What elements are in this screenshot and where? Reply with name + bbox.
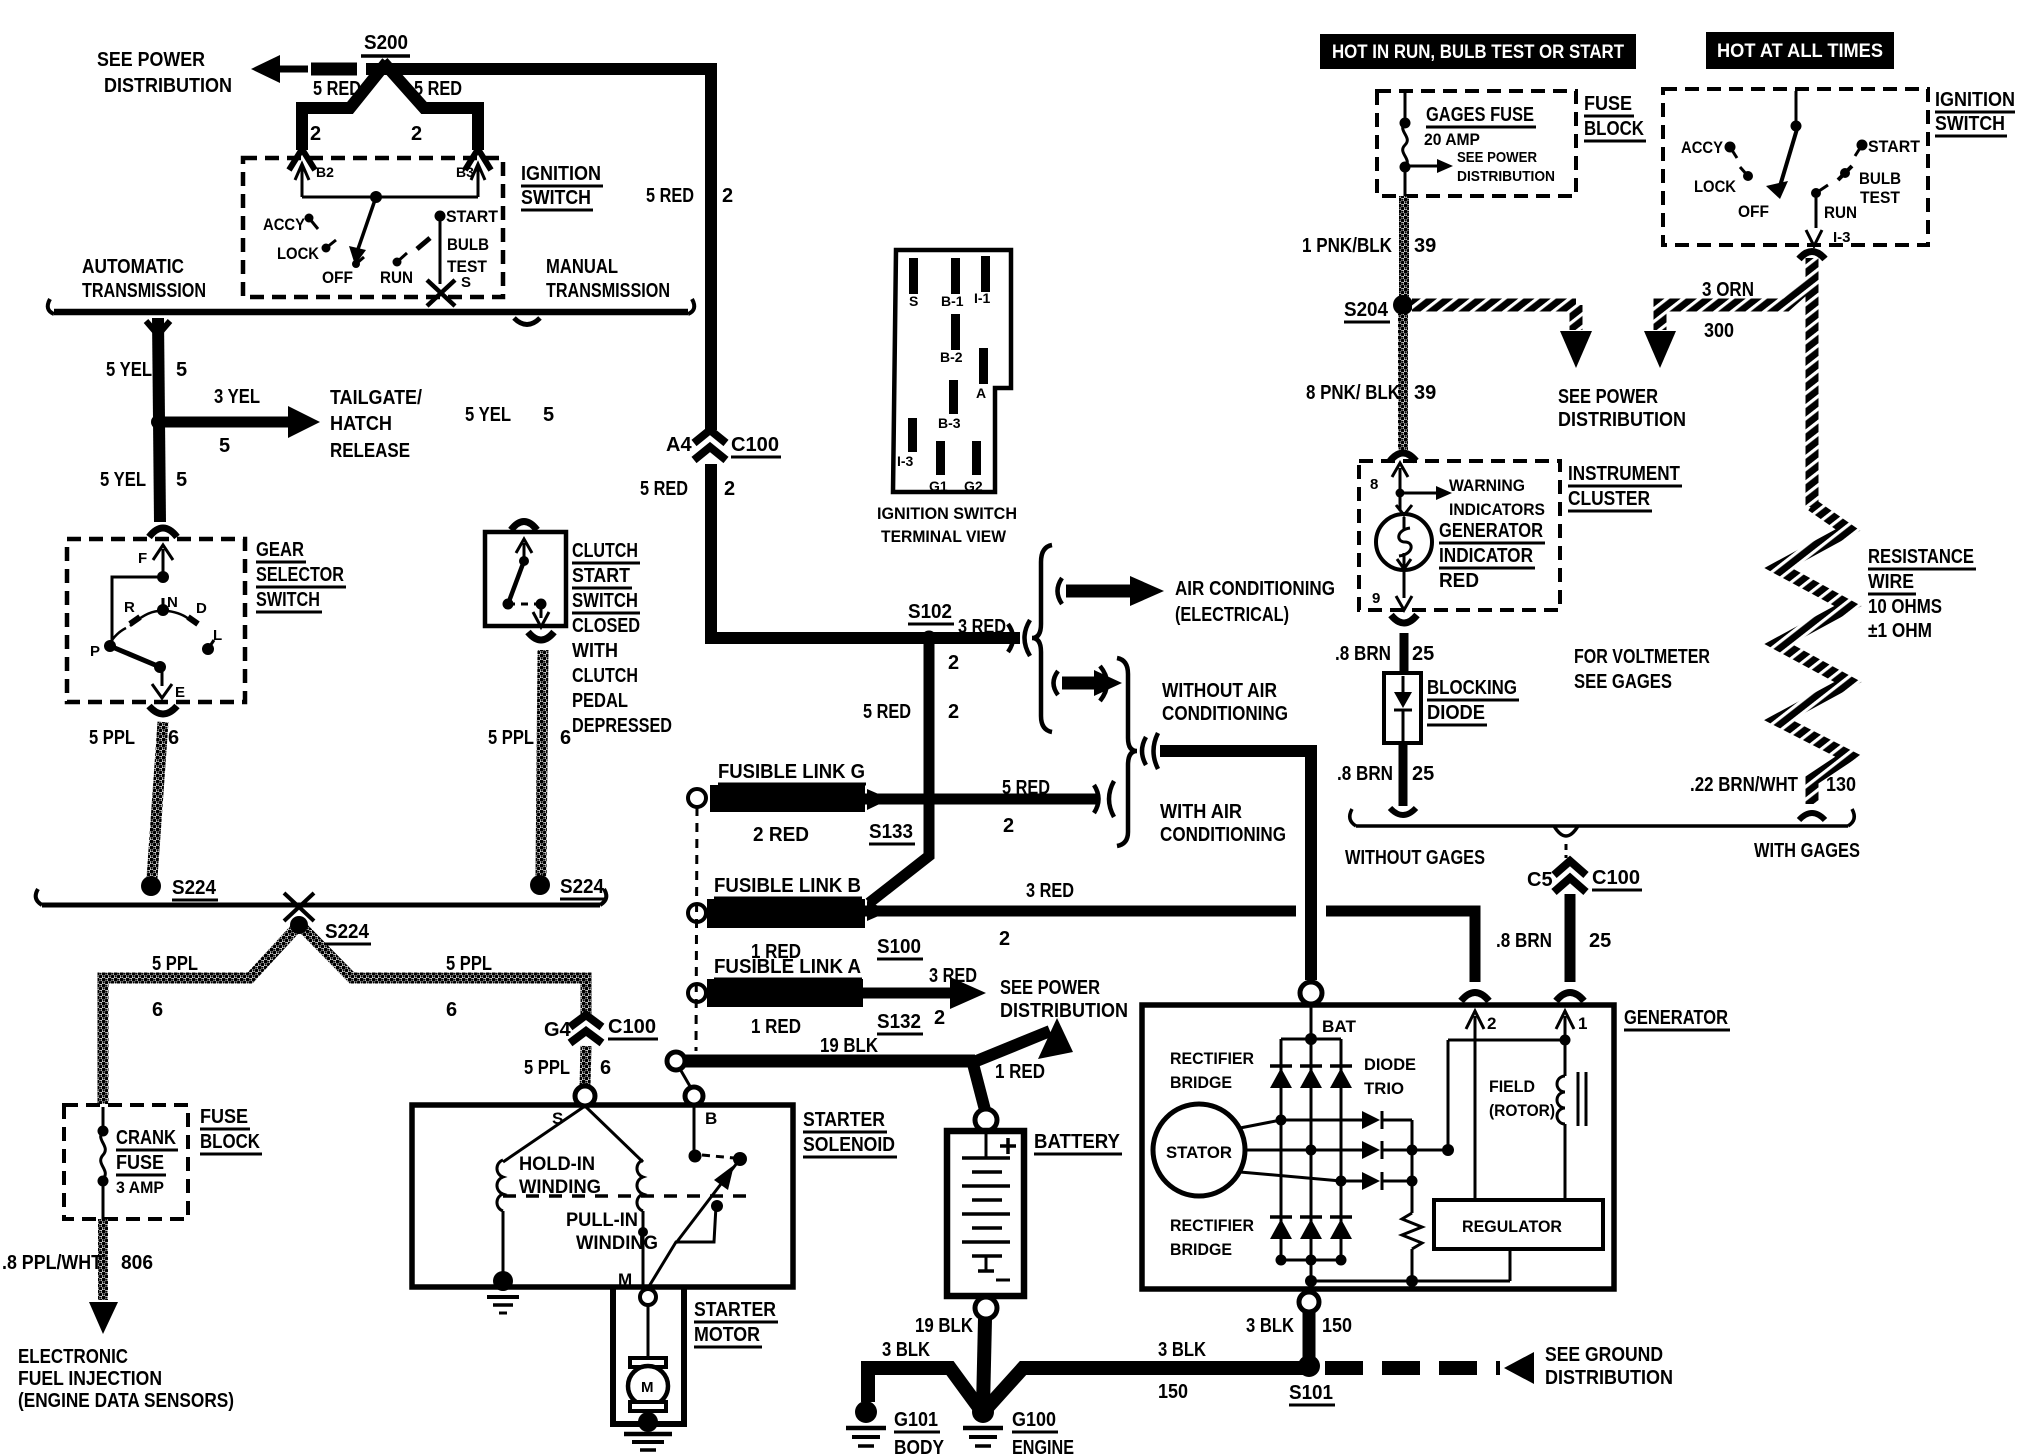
svg-text:E: E [175, 684, 185, 701]
wire 3 RED to generator terminal 2 [865, 901, 1475, 982]
label FOR VOLTMETER SEE GAGES [1574, 646, 1710, 693]
label RECTIFIER BRIDGE upper [1170, 1049, 1254, 1092]
svg-text:GEAR: GEAR [256, 539, 304, 561]
svg-text:P: P [90, 643, 100, 660]
svg-text:S: S [909, 293, 918, 309]
svg-text:10 OHMS: 10 OHMS [1868, 596, 1942, 618]
splice S200 [361, 32, 410, 56]
svg-text:DIODE: DIODE [1427, 702, 1485, 724]
svg-text:2: 2 [724, 478, 735, 500]
svg-text:19 BLK: 19 BLK [820, 1035, 878, 1057]
label .8 BRN 25 lower [1337, 763, 1434, 785]
svg-text:150: 150 [1322, 1315, 1352, 1337]
svg-text:C100: C100 [731, 434, 779, 456]
svg-text:±1 OHM: ±1 OHM [1868, 620, 1932, 642]
terminal S [552, 1086, 595, 1128]
svg-text:1 RED: 1 RED [995, 1061, 1045, 1083]
svg-text:B-3: B-3 [938, 415, 961, 431]
ignition switch right dashed box [1663, 89, 1928, 245]
wire 3 BLK 150 generator to S101 [1303, 1312, 1316, 1366]
svg-text:DISTRIBUTION: DISTRIBUTION [1457, 168, 1555, 185]
connector cup gear selector bottom [149, 706, 177, 714]
svg-text:STATOR: STATOR [1166, 1143, 1232, 1162]
svg-text:39: 39 [1414, 382, 1436, 404]
connector G4 C100 [544, 1015, 658, 1043]
svg-text:8 PNK/ BLK: 8 PNK/ BLK [1306, 382, 1400, 404]
ignition switch right internals [1681, 91, 1921, 246]
wire internal bus B2-B3 [302, 196, 478, 199]
svg-text:S132: S132 [877, 1011, 921, 1033]
svg-text:5 PPL: 5 PPL [488, 727, 534, 749]
svg-text:SEE POWER: SEE POWER [1558, 386, 1658, 408]
wire 3 BLK to G101 [868, 1368, 980, 1409]
label BLOCKING DIODE [1427, 677, 1519, 725]
connector cup instrument cluster top [1390, 453, 1416, 461]
svg-text:I-1: I-1 [974, 290, 991, 306]
wire START to S terminal [439, 216, 442, 284]
svg-text:FUSE: FUSE [116, 1152, 164, 1174]
svg-text:FUEL INJECTION: FUEL INJECTION [18, 1368, 162, 1390]
wire 5 RED with air conditioning [865, 781, 1114, 817]
rectifier top bus [1281, 1004, 1341, 1260]
svg-text:FUSIBLE LINK A: FUSIBLE LINK A [714, 956, 861, 978]
svg-text:5 PPL: 5 PPL [446, 953, 492, 975]
svg-text:R: R [124, 599, 135, 616]
svg-text:WARNING: WARNING [1449, 476, 1525, 495]
svg-text:5: 5 [543, 404, 554, 426]
svg-text:5 RED: 5 RED [313, 78, 361, 100]
svg-text:SWITCH: SWITCH [521, 187, 591, 209]
svg-text:2: 2 [722, 185, 733, 207]
connector arrow at B2 [289, 149, 315, 170]
resistor [1402, 1181, 1422, 1282]
label GENERATOR [1624, 1007, 1730, 1030]
svg-text:AIR CONDITIONING: AIR CONDITIONING [1175, 578, 1335, 600]
starter solenoid box [412, 1105, 793, 1287]
wire 5 PPL clutch switch to S224 [541, 650, 543, 876]
svg-text:WITH: WITH [572, 640, 618, 662]
label .8 BRN 25 at generator [1496, 930, 1611, 952]
svg-text:19 BLK: 19 BLK [915, 1315, 973, 1337]
label WITHOUT AIR CONDITIONING [1162, 680, 1288, 725]
svg-text:G4: G4 [544, 1019, 572, 1041]
svg-text:L: L [213, 627, 222, 644]
svg-text:OFF: OFF [1738, 202, 1769, 221]
label ELECTRONIC FUEL INJECTION (ENGINE DATA SENSORS) [18, 1346, 234, 1412]
resistance wire zigzag [1778, 505, 1848, 804]
svg-text:DIODE: DIODE [1364, 1055, 1416, 1074]
label GEAR SELECTOR SWITCH [256, 539, 346, 612]
svg-text:5 PPL: 5 PPL [89, 727, 135, 749]
svg-text:FOR VOLTMETER: FOR VOLTMETER [1574, 646, 1710, 668]
label RECTIFIER BRIDGE lower [1170, 1216, 1254, 1259]
generator indicator bulb [1372, 493, 1432, 610]
svg-text:5: 5 [219, 435, 230, 457]
svg-text:5 YEL: 5 YEL [100, 469, 146, 491]
svg-text:WITH AIR: WITH AIR [1160, 801, 1242, 823]
svg-text:S102: S102 [908, 601, 952, 623]
svg-text:BAT: BAT [1322, 1017, 1357, 1036]
svg-text:RELEASE: RELEASE [330, 440, 410, 462]
svg-text:C100: C100 [608, 1016, 656, 1038]
node junction 19 BLK [667, 1052, 685, 1070]
svg-text:6: 6 [152, 999, 163, 1021]
wire .8 BRN 25 to blocking diode [1400, 633, 1409, 673]
contact RUN [393, 253, 408, 267]
splice S101 [1289, 1355, 1335, 1405]
svg-text:BODY: BODY [894, 1437, 945, 1456]
label SEE POWER DISTRIBUTION [97, 49, 232, 97]
svg-text:LOCK: LOCK [277, 244, 320, 263]
svg-text:.8 BRN: .8 BRN [1337, 763, 1393, 785]
svg-text:RED: RED [1439, 570, 1479, 592]
label STARTER MOTOR [694, 1299, 778, 1347]
label SEE POWER DISTRIBUTION right [1558, 386, 1686, 431]
svg-text:8: 8 [1370, 476, 1378, 493]
wire 3 YEL to tailgate hatch release [158, 406, 320, 438]
svg-text:CONDITIONING: CONDITIONING [1162, 703, 1288, 725]
svg-text:B2: B2 [316, 164, 334, 180]
svg-text:SELECTOR: SELECTOR [256, 564, 344, 586]
brace option join right [1117, 658, 1137, 846]
label 3 RED 2 [999, 880, 1074, 950]
starter motor [628, 1305, 668, 1419]
splice S204 [1344, 295, 1413, 322]
svg-text:.8 BRN: .8 BRN [1335, 643, 1391, 665]
svg-text:BRIDGE: BRIDGE [1170, 1073, 1232, 1092]
svg-text:3 RED: 3 RED [929, 965, 977, 987]
svg-text:5 RED: 5 RED [640, 478, 688, 500]
svg-text:RESISTANCE: RESISTANCE [1868, 546, 1974, 568]
fusible link A [688, 956, 923, 1038]
svg-text:I-3: I-3 [1833, 229, 1851, 246]
svg-text:2: 2 [1487, 1014, 1496, 1033]
svg-text:3 YEL: 3 YEL [214, 386, 260, 408]
svg-text:SOLENOID: SOLENOID [803, 1134, 895, 1156]
wire 5 RED left branch to ignition switch B2 [302, 62, 387, 150]
svg-text:2: 2 [934, 1007, 945, 1029]
label AUTOMATIC TRANSMISSION [82, 256, 206, 302]
label WITH AIR CONDITIONING [1160, 801, 1286, 846]
gear selector internals [90, 545, 222, 701]
label RESISTANCE WIRE 10 OHMS +-1 OHM [1868, 546, 1976, 642]
svg-text:130: 130 [1826, 774, 1856, 796]
svg-text:HOT IN RUN, BULB TEST OR START: HOT IN RUN, BULB TEST OR START [1332, 42, 1624, 63]
svg-text:TAILGATE/: TAILGATE/ [330, 387, 422, 409]
svg-text:S204: S204 [1344, 299, 1389, 321]
wire main feed from S200 to power distribution (arrow left) [251, 55, 711, 430]
blocking diode [1384, 673, 1421, 743]
svg-text:B3: B3 [456, 164, 474, 180]
label SEE POWER DISTRIBUTION center [1000, 977, 1128, 1022]
svg-text:M: M [641, 1379, 654, 1396]
contact START [435, 211, 446, 222]
svg-text:MANUAL: MANUAL [546, 256, 618, 278]
svg-text:START: START [1868, 137, 1921, 156]
label 3 YEL / 5 [214, 386, 260, 457]
label BATTERY [1034, 1131, 1122, 1154]
svg-text:INSTRUMENT: INSTRUMENT [1568, 463, 1680, 485]
terminal B [680, 1069, 717, 1128]
wire arrow see power distribution from fuse [1405, 149, 1555, 185]
svg-text:BATTERY: BATTERY [1034, 1131, 1121, 1153]
svg-text:SEE POWER: SEE POWER [1457, 149, 1537, 166]
label AIR CONDITIONING (ELECTRICAL) [1175, 578, 1335, 626]
svg-text:150: 150 [1158, 1381, 1188, 1403]
svg-text:25: 25 [1412, 763, 1434, 785]
svg-text:20 AMP: 20 AMP [1424, 130, 1480, 149]
svg-text:CONDITIONING: CONDITIONING [1160, 824, 1286, 846]
svg-text:ACCY: ACCY [263, 215, 306, 234]
label IGNITION SWITCH TERMINAL VIEW [877, 504, 1017, 546]
connector cup clutch switch top [511, 522, 537, 531]
gages fuse 20 AMP [1400, 93, 1537, 196]
svg-text:B: B [705, 1109, 717, 1128]
svg-text:6: 6 [600, 1057, 611, 1079]
svg-text:STARTER: STARTER [803, 1109, 885, 1131]
label 5 RED 2 lower [640, 478, 735, 500]
label 5 YEL 5 upper [106, 359, 187, 381]
svg-text:M: M [618, 1270, 632, 1289]
pull-in winding coil [637, 1160, 643, 1211]
contact LOCK [322, 240, 337, 253]
svg-text:GENERATOR: GENERATOR [1624, 1007, 1728, 1029]
pin B2 [295, 164, 334, 197]
label INSTRUMENT CLUSTER [1568, 463, 1682, 511]
rectifier bridge lower diodes [1270, 1217, 1352, 1239]
wire 8 PNK/BLK S204 to instrument cluster [1398, 314, 1408, 450]
wire pull-in to M [638, 1211, 648, 1285]
svg-text:ACCY: ACCY [1681, 138, 1724, 157]
wire 5 PPL gear selector to S224 [152, 722, 163, 878]
label 5 RED 2 mid [863, 701, 959, 723]
svg-text:CLUSTER: CLUSTER [1568, 488, 1650, 510]
wire 3 BLK 150 to S101 [986, 1368, 1303, 1409]
pin 8 and warning indicators [1370, 463, 1545, 519]
svg-text:C5: C5 [1527, 869, 1553, 891]
wire striped ignition to resistance wire [1806, 260, 1819, 507]
svg-text:SEE POWER: SEE POWER [1000, 977, 1100, 999]
svg-text:TERMINAL VIEW: TERMINAL VIEW [881, 527, 1007, 546]
label 5 RED 2 upper [646, 185, 733, 207]
connector cap I-3 [1799, 252, 1825, 260]
svg-text:5 YEL: 5 YEL [106, 359, 152, 381]
svg-text:5 YEL: 5 YEL [465, 404, 511, 426]
contact BULB TEST tick [417, 238, 430, 249]
label 5 YEL 5 manual side [465, 404, 554, 426]
wire arrow to WITHOUT AIR CONDITIONING [1054, 666, 1123, 701]
svg-text:BULB: BULB [447, 235, 489, 254]
svg-text:3 RED: 3 RED [1026, 880, 1074, 902]
gear selector switch dashed box [67, 539, 245, 702]
label TAILGATE/HATCH RELEASE [330, 387, 422, 462]
svg-text:TEST: TEST [447, 257, 488, 276]
svg-text:TRANSMISSION: TRANSMISSION [82, 280, 206, 302]
svg-text:(ROTOR): (ROTOR) [1489, 1101, 1555, 1120]
svg-text:25: 25 [1589, 930, 1611, 952]
wire diode trio to field [1412, 1040, 1565, 1156]
connector C5 C100 [1527, 861, 1642, 892]
wire 5 PPL right branch to G4 [303, 928, 586, 1016]
svg-text:SWITCH: SWITCH [572, 590, 638, 612]
label 5 PPL 6 right branch [446, 953, 492, 1021]
svg-text:CLUTCH: CLUTCH [572, 540, 638, 562]
svg-text:N: N [167, 594, 178, 611]
svg-text:S224: S224 [560, 876, 605, 898]
svg-text:5 RED: 5 RED [1002, 777, 1050, 799]
wire 19 BLK solenoid B to battery [684, 1060, 985, 1110]
svg-text:3 AMP: 3 AMP [116, 1178, 164, 1197]
svg-text:1 RED: 1 RED [751, 1016, 801, 1038]
label 3 BLK 150 mid [1158, 1339, 1206, 1403]
svg-text:5 RED: 5 RED [646, 185, 694, 207]
svg-text:(ELECTRICAL): (ELECTRICAL) [1175, 604, 1289, 626]
label BULB TEST [447, 235, 489, 276]
splice S224 left [141, 876, 218, 900]
connector cup clutch switch bottom [528, 632, 554, 640]
stator tap wires [1240, 1115, 1362, 1187]
terminal BAT [1300, 982, 1357, 1036]
pin B3 [456, 164, 485, 197]
svg-text:2: 2 [948, 652, 959, 674]
svg-text:AUTOMATIC: AUTOMATIC [82, 256, 184, 278]
svg-text:S101: S101 [1289, 1382, 1333, 1404]
regulator [1434, 1200, 1603, 1249]
svg-text:5 PPL: 5 PPL [524, 1057, 570, 1079]
terminal M [618, 1270, 656, 1305]
solenoid contact mechanism [648, 1105, 747, 1288]
svg-text:B-1: B-1 [941, 293, 964, 309]
label FUSE BLOCK [200, 1106, 262, 1154]
svg-text:3 BLK: 3 BLK [1246, 1315, 1294, 1337]
svg-text:TRIO: TRIO [1364, 1079, 1404, 1098]
label DIODE TRIO [1364, 1055, 1416, 1098]
svg-text:ELECTRONIC: ELECTRONIC [18, 1346, 128, 1368]
svg-text:5 PPL: 5 PPL [152, 953, 198, 975]
svg-text:3 BLK: 3 BLK [882, 1339, 930, 1361]
wire dashed link bus [696, 807, 697, 1051]
label GENERATOR INDICATOR RED [1439, 520, 1545, 592]
svg-text:2: 2 [411, 123, 422, 145]
svg-text:MOTOR: MOTOR [694, 1324, 760, 1346]
label MANUAL TRANSMISSION [546, 256, 670, 302]
svg-text:RUN: RUN [1824, 203, 1857, 222]
svg-text:2: 2 [1003, 815, 1014, 837]
fusible link G [688, 761, 915, 846]
crank fuse 3 AMP [98, 1107, 179, 1219]
svg-text:GAGES FUSE: GAGES FUSE [1426, 104, 1534, 126]
node wiper pivot [370, 191, 382, 203]
svg-text:S: S [461, 274, 471, 291]
svg-text:HOT AT ALL TIMES: HOT AT ALL TIMES [1717, 41, 1883, 62]
svg-text:S224: S224 [172, 877, 217, 899]
wire S to windings [503, 1106, 643, 1162]
svg-text:S100: S100 [877, 936, 921, 958]
svg-text:IGNITION SWITCH: IGNITION SWITCH [877, 504, 1017, 523]
wire 5 PPL G4 to solenoid S [585, 1046, 586, 1086]
svg-text:G101: G101 [894, 1409, 938, 1431]
ground G101 BODY [846, 1401, 945, 1456]
svg-text:.8 PPL/WHT: .8 PPL/WHT [2, 1252, 102, 1274]
instrument cluster dashed box [1359, 461, 1560, 610]
label 5 PPL 6 clutch [488, 727, 571, 749]
svg-text:START: START [446, 207, 499, 226]
label 8 PNK/BLK 39 [1306, 382, 1436, 404]
svg-text:3 RED: 3 RED [958, 616, 1006, 638]
dashed linkage line [503, 1194, 747, 1198]
svg-text:C100: C100 [1592, 867, 1640, 889]
wire generator BAT feed [1160, 751, 1311, 980]
label FIELD (ROTOR) [1489, 1077, 1555, 1120]
svg-text:G100: G100 [1012, 1409, 1056, 1431]
svg-text:PEDAL: PEDAL [572, 690, 628, 712]
node X splice S224 [284, 893, 371, 944]
svg-text:SEE GAGES: SEE GAGES [1574, 671, 1672, 693]
fuse block dashed box (crank fuse) [64, 1105, 188, 1219]
svg-text:1 PNK/BLK: 1 PNK/BLK [1302, 235, 1392, 257]
svg-text:S133: S133 [869, 821, 913, 843]
svg-text:6: 6 [168, 727, 179, 749]
label 5 PPL 6 below G4 [524, 1057, 611, 1079]
contact ACCY [305, 214, 319, 230]
pin 1 [1556, 1011, 1587, 1046]
svg-text:BULB: BULB [1859, 169, 1901, 188]
svg-text:2: 2 [999, 928, 1010, 950]
svg-text:WIRE: WIRE [1868, 571, 1914, 593]
wire .8 BRN 25 diode to option line [1399, 743, 1408, 806]
label SEE GROUND DISTRIBUTION [1545, 1344, 1673, 1389]
connector cup resistance wire bottom [1799, 813, 1825, 820]
svg-text:WITHOUT AIR: WITHOUT AIR [1162, 680, 1277, 702]
svg-text:DISTRIBUTION: DISTRIBUTION [1000, 1000, 1128, 1022]
label 3 ORN 300 [1702, 279, 1754, 342]
svg-text:DISTRIBUTION: DISTRIBUTION [104, 75, 232, 97]
generator box [1142, 1005, 1614, 1289]
svg-text:FUSE: FUSE [200, 1106, 248, 1128]
svg-text:CLOSED: CLOSED [572, 615, 640, 637]
svg-text:B-2: B-2 [940, 349, 963, 365]
wire hold-in to ground [487, 1211, 519, 1313]
ground G100 ENGINE [963, 1401, 1074, 1456]
svg-text:300: 300 [1704, 320, 1734, 342]
svg-text:A: A [976, 385, 986, 401]
label .8 PPL/WHT 806 [2, 1252, 153, 1274]
wire .8 BRN 25 to generator terminal 1 [1565, 894, 1576, 982]
svg-text:SWITCH: SWITCH [256, 589, 320, 611]
connector cup gear selector [149, 528, 177, 537]
svg-text:6: 6 [446, 999, 457, 1021]
svg-text:FUSIBLE LINK G: FUSIBLE LINK G [718, 761, 865, 783]
connector A4 C100 [666, 430, 781, 460]
svg-text:2: 2 [310, 123, 321, 145]
wire option split line [48, 299, 695, 325]
label IGNITION SWITCH right [1935, 89, 2015, 136]
svg-text:BLOCK: BLOCK [200, 1131, 260, 1153]
svg-text:5 RED: 5 RED [863, 701, 911, 723]
svg-text:CLUTCH: CLUTCH [572, 665, 638, 687]
wire 19 BLK battery to G100 [983, 1319, 985, 1408]
wire striped 3 ORN 300 [1644, 258, 1812, 368]
svg-text:CRANK: CRANK [116, 1127, 176, 1149]
stator [1153, 1104, 1245, 1196]
wire 3 RED to power distribution [863, 977, 986, 1009]
wire dashed to ground distribution [1325, 1352, 1534, 1384]
svg-text:FUSIBLE LINK B: FUSIBLE LINK B [714, 875, 861, 897]
svg-text:RECTIFIER: RECTIFIER [1170, 1216, 1254, 1235]
label HOT AT ALL TIMES [1706, 32, 1894, 69]
svg-text:ENGINE: ENGINE [1012, 1437, 1074, 1456]
label 3 BLK 150 generator [1246, 1315, 1352, 1337]
